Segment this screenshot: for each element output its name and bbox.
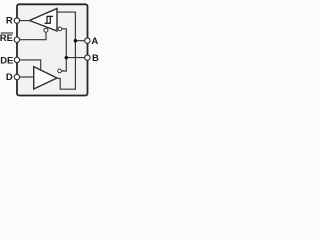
svg-text:R: R <box>6 15 13 26</box>
svg-text:DE: DE <box>0 55 13 66</box>
svg-text:A: A <box>91 36 98 47</box>
svg-text:RE: RE <box>0 33 13 44</box>
svg-text:D: D <box>6 72 13 83</box>
svg-text:B: B <box>92 53 99 64</box>
